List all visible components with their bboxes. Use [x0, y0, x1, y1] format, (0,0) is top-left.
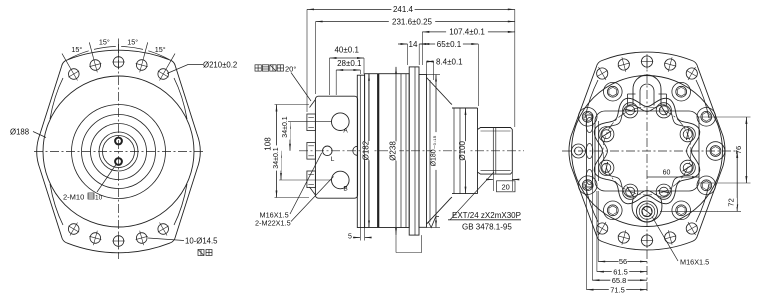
svg-text:2-M10: 2-M10: [63, 193, 84, 202]
svg-text:65±0.1: 65±0.1: [437, 40, 462, 49]
svg-text:28±0.1: 28±0.1: [337, 59, 362, 68]
dim Ø100: [465, 108, 467, 194]
dim 108: [276, 105, 278, 198]
section view of motor: [255, 5, 524, 252]
lifting tab top: [633, 75, 661, 106]
dim Ø180: [435, 75, 437, 228]
svg-text:76: 76: [734, 146, 743, 154]
svg-text:107.4±0.1: 107.4±0.1: [449, 28, 485, 37]
port bosses left: [307, 114, 316, 131]
roughness mark: [429, 217, 440, 228]
svg-text:71.5: 71.5: [610, 285, 625, 294]
svg-text:108: 108: [264, 137, 273, 151]
dim 34±0.1 upper: [289, 122, 291, 151]
svg-text:65.8: 65.8: [612, 276, 627, 285]
dim Ø238: [395, 67, 397, 235]
bevel bottom-left: [310, 187, 316, 195]
svg-text:A: A: [343, 128, 348, 135]
svg-text:15°: 15°: [99, 38, 110, 47]
left side ports: [586, 115, 588, 187]
centerline horizontal: [34, 151, 203, 153]
svg-text:72: 72: [727, 198, 736, 206]
svg-text:GB 3478.1-95: GB 3478.1-95: [462, 222, 512, 231]
svg-text:241.4: 241.4: [393, 5, 414, 14]
port A: [332, 113, 350, 131]
svg-text:15°: 15°: [127, 38, 138, 47]
svg-text:Ø182: Ø182: [362, 140, 371, 160]
dim 76: [745, 117, 747, 183]
dim 60: [647, 176, 699, 178]
body circle Ø188: [43, 76, 194, 227]
valve housing square: [595, 111, 699, 191]
svg-text:231.6±0.25: 231.6±0.25: [392, 17, 433, 26]
gauge notch: [353, 146, 357, 155]
ring of socket screws: [572, 144, 586, 158]
svg-text:Ø100: Ø100: [458, 140, 467, 160]
svg-text:15°: 15°: [155, 45, 166, 54]
10 flange bolt holes: [686, 68, 697, 79]
distributor plate: [357, 75, 364, 227]
M16 drain plug: [637, 201, 658, 222]
port B: [332, 171, 350, 189]
svg-text:14: 14: [409, 40, 418, 49]
dim 107.4±0.1: [422, 31, 515, 33]
centerline: [299, 150, 524, 152]
dim 231.6±0.25: [316, 21, 515, 23]
rim fillet curves: [585, 80, 598, 118]
8 cover screws: [680, 127, 695, 142]
splined shaft: [478, 128, 513, 175]
bevel 20deg top-left: [310, 100, 316, 108]
svg-text:40±0.1: 40±0.1: [334, 46, 359, 55]
spigot Ø180: [419, 75, 427, 228]
svg-text:20°: 20°: [285, 64, 296, 73]
body Ø182: [365, 74, 410, 228]
dim 65±0.1: [422, 43, 478, 45]
2-M10 tapped holes: [115, 138, 122, 145]
flange outline: [37, 50, 200, 253]
svg-text:B: B: [343, 186, 347, 193]
left end view: mounting flange: [10, 38, 237, 259]
dim Ø182: [368, 74, 370, 228]
svg-text:Ø238: Ø238: [389, 141, 398, 161]
cone: [427, 78, 453, 105]
svg-text:M16X1.5: M16X1.5: [680, 257, 709, 266]
10 bolt holes Ø14.5 on Ø210 BC: [158, 69, 169, 80]
svg-text:15°: 15°: [71, 45, 82, 54]
15 deg extension lines: [167, 54, 175, 68]
svg-text:10: 10: [95, 195, 103, 202]
centerline vertical: [118, 44, 120, 259]
screw pitch circle: [603, 107, 691, 195]
dim 241.4: [307, 8, 515, 10]
flange outline: [569, 52, 725, 250]
body circle: [572, 76, 723, 227]
svg-text:EXT/24 zX2mX30P: EXT/24 zX2mX30P: [452, 211, 521, 220]
svg-text:34±0.1: 34±0.1: [273, 147, 280, 168]
dim 72: [736, 151, 738, 211]
flange rim fillet curves: [50, 78, 63, 119]
svg-text:Ø210±0.2: Ø210±0.2: [203, 60, 237, 69]
svg-text:56: 56: [619, 257, 627, 266]
shaft step face: [477, 108, 479, 194]
svg-text:20: 20: [502, 182, 510, 191]
right end view: rear cover: [562, 52, 751, 294]
svg-text:Ø188: Ø188: [10, 128, 29, 137]
svg-text:10-Ø14.5: 10-Ø14.5: [185, 237, 218, 246]
centerlines: [646, 58, 648, 292]
label bevel angle 20deg: [255, 65, 261, 71]
flange Ø238: [409, 67, 419, 235]
M16 drain plug boss: [632, 198, 662, 223]
pilot circles: [72, 105, 166, 199]
dim 14: [398, 43, 408, 45]
Ø100 cylinder: [452, 107, 478, 109]
cover scalloped flower outer: [594, 98, 700, 204]
svg-text:2-M22X1.5: 2-M22X1.5: [255, 218, 291, 227]
dim 20 shaft: [492, 174, 494, 191]
svg-text:34±0.1: 34±0.1: [282, 116, 289, 137]
port block: [315, 96, 357, 198]
svg-text:Ø180₋₀.₁₅: Ø180₋₀.₁₅: [431, 135, 438, 166]
svg-text:8.4±0.1: 8.4±0.1: [436, 58, 463, 67]
svg-text:60: 60: [663, 170, 671, 177]
dim 34±0.1 lower: [280, 151, 282, 180]
bottom dims: [597, 191, 599, 262]
svg-text:5: 5: [348, 234, 352, 241]
body seams: [368, 74, 370, 228]
port L: [323, 146, 333, 156]
15 deg arcs and labels: [148, 51, 168, 59]
svg-text:L: L: [331, 156, 335, 163]
